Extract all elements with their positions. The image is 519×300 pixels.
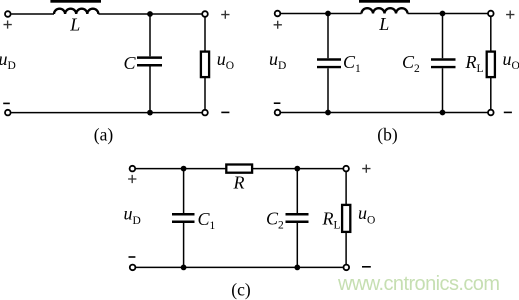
svg-text:L: L: [69, 15, 80, 35]
wire top-left (b): [281, 13, 362, 15]
terminal top-right (a): [202, 11, 208, 17]
plus top-right (b): [506, 11, 514, 19]
svg-text:RL: RL: [322, 208, 341, 231]
plus top-left (c): [128, 175, 136, 183]
capacitor C (a): [137, 58, 162, 66]
svg-text:uD: uD: [0, 49, 16, 72]
capacitor C2 (c): [286, 214, 309, 221]
svg-text:R: R: [233, 173, 245, 193]
svg-text:(a): (a): [94, 125, 114, 145]
minus bottom-right (b): [504, 111, 512, 113]
terminal top-right (c): [343, 166, 349, 172]
terminal bottom-left (a): [5, 110, 11, 116]
svg-text:uO: uO: [358, 203, 375, 226]
wire C1 branch upper (c): [183, 169, 185, 213]
svg-text:(b): (b): [377, 125, 398, 145]
plus top-left (b): [274, 21, 282, 29]
node junction top C1 (b): [325, 11, 331, 17]
plus top-right (c): [362, 165, 370, 173]
node junction bottom (a): [147, 110, 153, 116]
terminal bottom-left (c): [130, 265, 136, 271]
wire capacitor branch lower (a): [149, 66, 151, 112]
svg-text:C: C: [124, 53, 137, 73]
terminal bottom-right (c): [344, 265, 350, 271]
resistor load RL (c): [342, 205, 350, 232]
node junction bottom C2 (c): [294, 265, 300, 271]
svg-text:C1: C1: [198, 209, 216, 232]
svg-text:uO: uO: [503, 49, 519, 72]
wire top-left (c): [136, 168, 227, 170]
terminal top-right (b): [488, 11, 494, 17]
terminal bottom-left (b): [275, 110, 281, 116]
wire bottom (c): [136, 266, 343, 268]
wire load branch upper (b): [490, 17, 492, 52]
svg-text:(c): (c): [231, 279, 251, 299]
svg-text:L: L: [378, 14, 389, 34]
resistor load (a): [201, 52, 209, 78]
node junction top (a): [147, 11, 153, 17]
node junction top C2 (c): [294, 166, 300, 172]
minus bottom-left (b): [274, 102, 281, 104]
wire C1 branch lower (b): [327, 68, 329, 112]
wire bottom (b): [281, 112, 488, 114]
wire C1 branch lower (c): [183, 223, 185, 268]
resistor load RL (b): [487, 52, 495, 78]
inductor L core bar (a): [50, 0, 101, 3]
wire load branch upper (c): [345, 172, 347, 205]
capacitor C1 (c): [172, 214, 195, 221]
terminal bottom-right (a): [202, 110, 208, 116]
svg-text:uO: uO: [217, 49, 234, 72]
svg-text:C2: C2: [266, 208, 284, 231]
wire top-right segment (b): [408, 13, 488, 15]
svg-text:C1: C1: [343, 52, 361, 75]
svg-text:www.cntronics.com: www.cntronics.com: [337, 273, 500, 295]
svg-text:uD: uD: [269, 49, 286, 72]
svg-text:C2: C2: [402, 52, 420, 75]
capacitor C1 (b): [317, 60, 341, 68]
wire top-right segment (c): [252, 168, 343, 170]
minus bottom-right (c): [362, 266, 371, 268]
svg-text:uD: uD: [124, 204, 141, 227]
node junction bottom C2 (b): [440, 110, 446, 116]
inductor L core bar (b): [359, 0, 410, 3]
wire load branch lower (b): [490, 77, 492, 109]
node junction bottom C1 (b): [325, 110, 331, 116]
wire bottom (a): [11, 112, 202, 114]
wire C2 branch upper (b): [442, 14, 444, 59]
minus bottom-left (c): [129, 256, 136, 258]
minus bottom-left (a): [3, 102, 10, 104]
node junction top C1 (c): [181, 166, 187, 172]
resistor R (c): [226, 165, 252, 173]
terminal top-left (c): [130, 166, 136, 172]
inductor L coil (a): [54, 9, 98, 14]
wire C1 branch upper (b): [327, 14, 329, 59]
terminal top-left (a): [5, 11, 11, 17]
wire load branch lower (c): [345, 232, 347, 264]
node junction top C2 (b): [440, 11, 446, 17]
terminal bottom-right (b): [488, 110, 494, 116]
wire C2 branch upper (c): [296, 169, 298, 213]
plus top-right (a): [221, 11, 229, 19]
node junction bottom C1 (c): [181, 265, 187, 271]
wire load branch lower (a): [204, 77, 206, 109]
capacitor C2 (b): [431, 60, 456, 68]
minus bottom-right (a): [221, 111, 229, 113]
plus top-left (a): [4, 21, 12, 29]
inductor L coil (b): [362, 8, 408, 13]
wire capacitor branch upper (a): [149, 14, 151, 56]
wire top-right segment (a): [98, 13, 201, 15]
wire load branch upper (a): [204, 17, 206, 51]
wire C2 branch lower (c): [296, 223, 298, 268]
wire C2 branch lower (b): [442, 68, 444, 112]
wire top-left (a): [11, 13, 54, 15]
svg-text:RL: RL: [465, 52, 484, 75]
terminal top-left (b): [275, 11, 281, 17]
